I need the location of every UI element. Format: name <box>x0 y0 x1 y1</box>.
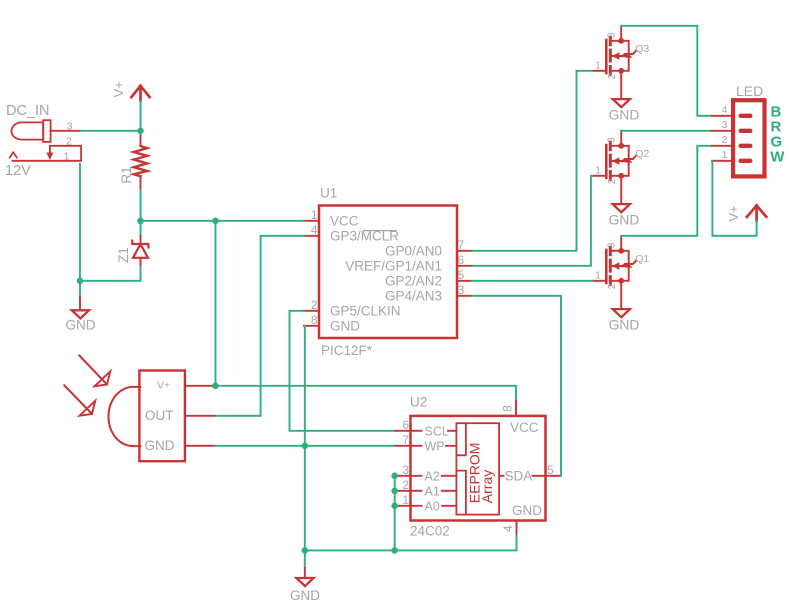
wire Q2 drain to LED pin3 <box>621 130 712 132</box>
wire A2/A1/A0 to GND rail <box>394 476 396 551</box>
pin 3 A2 of U2 <box>395 463 457 483</box>
ground GND (Q2) <box>609 204 640 227</box>
wire V+ to LED pin1 <box>712 161 757 236</box>
pin 3 of LED <box>712 119 753 133</box>
svg-text:LED: LED <box>736 83 763 99</box>
pin 3 of DC_IN <box>51 120 81 132</box>
pin V+ of IR sensor <box>185 385 215 387</box>
ground GND (Q3) <box>609 99 640 122</box>
pin 1 VCC of U1 <box>304 208 359 228</box>
pin 2 GP5/CLKIN of U1 <box>304 298 401 318</box>
svg-text:3: 3 <box>722 119 728 131</box>
svg-text:U2: U2 <box>410 395 427 410</box>
svg-text:GND: GND <box>290 588 320 603</box>
wire V+ vertical to IR sensor <box>215 221 217 386</box>
wire Q1 gate to U1 pin5 <box>472 280 592 282</box>
wire U1 pin4 to IR OUT <box>215 236 304 416</box>
light ray arrow 2 <box>64 385 95 415</box>
svg-text:6: 6 <box>402 418 409 432</box>
svg-text:Array: Array <box>479 470 495 503</box>
svg-text:A1: A1 <box>425 484 440 498</box>
svg-text:GP0/AN0: GP0/AN0 <box>385 243 442 258</box>
svg-text:PIC12F*: PIC12F* <box>321 343 373 358</box>
node GND/WP junction <box>302 443 309 450</box>
pin 4 of LED <box>712 104 753 118</box>
pin 2 of DC_IN <box>46 135 81 160</box>
pin 2 A1 of U2 <box>395 478 457 498</box>
pin 1 A0 of U2 <box>395 493 457 513</box>
power symbol V+ (near LED) <box>726 205 766 221</box>
svg-text:A0: A0 <box>425 499 440 513</box>
wire U1 pin8 GND vertical <box>304 326 306 551</box>
svg-text:GND: GND <box>66 318 96 333</box>
svg-text:3: 3 <box>67 120 73 132</box>
EEPROM array inner box <box>456 423 499 514</box>
svg-text:3: 3 <box>458 283 465 297</box>
svg-text:SDA: SDA <box>505 468 533 483</box>
svg-text:1: 1 <box>311 208 318 222</box>
svg-text:GP2/AN2: GP2/AN2 <box>385 273 442 288</box>
IR receiver sensor <box>109 371 185 462</box>
node V+ junction <box>137 128 144 135</box>
svg-text:R1: R1 <box>119 166 134 183</box>
connector LED <box>733 83 764 177</box>
svg-text:Q1: Q1 <box>635 253 649 265</box>
svg-text:GP4/AN3: GP4/AN3 <box>385 288 442 303</box>
svg-text:V+: V+ <box>157 380 170 392</box>
wire bottom GND rail <box>305 536 517 551</box>
svg-text:2: 2 <box>607 178 618 184</box>
pin 6 VREF/GP1/AN1 of U1 <box>345 253 472 273</box>
transistor Q3 <box>592 26 649 98</box>
svg-text:OUT: OUT <box>145 408 174 423</box>
svg-text:3: 3 <box>606 137 617 143</box>
svg-text:2: 2 <box>607 283 618 289</box>
wire Z1 anode to GND rail <box>80 266 141 280</box>
wire Q3 drain to LED pin4 <box>621 26 712 116</box>
svg-text:GND: GND <box>609 213 640 228</box>
node GND rail junction mid <box>391 547 398 554</box>
pin 5 GP2/AN2 of U1 <box>385 268 472 288</box>
pin 7 GP0/AN0 of U1 <box>385 238 472 258</box>
IC U1 PIC12F <box>319 185 457 358</box>
svg-text:1: 1 <box>402 493 409 507</box>
node GND junction left <box>77 278 84 285</box>
ground GND (bottom) <box>290 550 320 603</box>
wire Q2 gate to U1 pin6 <box>472 176 592 266</box>
svg-text:2: 2 <box>607 73 618 79</box>
pin 7 WP of U2 <box>396 433 457 453</box>
svg-text:8: 8 <box>501 405 515 412</box>
power symbol V+ (top left) <box>111 81 149 101</box>
svg-text:3: 3 <box>606 32 617 38</box>
node GND rail junction left <box>302 547 309 554</box>
svg-text:5: 5 <box>547 463 554 477</box>
wire U1 pin3 to U2 SDA <box>472 296 561 476</box>
svg-text:GP5/CLKIN: GP5/CLKIN <box>330 303 401 318</box>
pin 8 GND of U1 <box>304 313 360 333</box>
svg-text:V+: V+ <box>726 205 741 221</box>
wire Q3 gate to U1 pin7 <box>472 71 592 251</box>
svg-text:8: 8 <box>311 313 318 327</box>
node IR V+ junction <box>212 383 219 390</box>
node A2 junction <box>391 473 398 480</box>
svg-text:1: 1 <box>722 149 728 161</box>
svg-text:SCL: SCL <box>425 424 449 438</box>
svg-text:6: 6 <box>458 253 465 267</box>
light ray arrow 1 <box>79 356 110 387</box>
svg-text:24C02: 24C02 <box>410 524 450 539</box>
svg-text:12V: 12V <box>5 163 31 179</box>
svg-text:VCC: VCC <box>330 213 359 228</box>
svg-text:7: 7 <box>458 238 465 252</box>
wire DC_IN pin1 down <box>79 164 81 297</box>
svg-text:A2: A2 <box>425 469 440 483</box>
pin GND of IR sensor <box>185 445 215 447</box>
svg-text:1: 1 <box>595 270 601 281</box>
svg-text:2: 2 <box>722 134 728 146</box>
pin 5 SDA of U2 <box>499 463 560 483</box>
resistor R1 <box>119 131 147 191</box>
svg-text:Q3: Q3 <box>635 43 649 55</box>
wire Q1 drain to LED pin2 <box>621 146 712 236</box>
node T junction to IR V+ <box>212 218 219 225</box>
svg-text:DC_IN: DC_IN <box>6 103 50 119</box>
svg-text:VREF/GP1/AN1: VREF/GP1/AN1 <box>345 258 442 273</box>
svg-text:5: 5 <box>458 268 465 282</box>
transistor Q1 <box>592 236 649 308</box>
wire R1 bottom to node <box>140 191 142 221</box>
svg-text:Z1: Z1 <box>116 247 131 263</box>
svg-text:GND: GND <box>145 438 175 453</box>
pin 2 of LED <box>712 134 753 148</box>
svg-text:4: 4 <box>311 223 318 237</box>
svg-text:1: 1 <box>595 60 601 71</box>
pin 3 GP4/AN3 of U1 <box>385 283 472 303</box>
svg-text:W: W <box>770 149 785 166</box>
ground GND (left) <box>66 297 96 333</box>
pin 4 GP3/MCLR of U1 <box>304 223 399 243</box>
svg-text:GND: GND <box>330 318 360 333</box>
zener diode Z1 <box>116 221 148 267</box>
node A1 junction <box>391 488 398 495</box>
svg-text:4: 4 <box>722 104 728 116</box>
wire V+ rail to U2 VCC <box>216 386 517 401</box>
svg-text:2: 2 <box>311 298 318 312</box>
ground GND (Q1) <box>609 309 640 332</box>
wire U1 pin2 to U2 SCL <box>290 311 396 431</box>
svg-text:3: 3 <box>402 463 409 477</box>
svg-text:GND: GND <box>609 108 640 123</box>
svg-text:4: 4 <box>501 525 515 532</box>
svg-text:V+: V+ <box>111 81 126 97</box>
pin 6 SCL of U2 <box>396 418 457 438</box>
svg-text:GND: GND <box>512 503 542 518</box>
svg-text:VCC: VCC <box>510 420 539 435</box>
pin 4 GND of U2 <box>501 503 542 536</box>
svg-text:2: 2 <box>402 478 409 492</box>
svg-text:Q2: Q2 <box>635 148 649 160</box>
pin 8 VCC of U2 <box>501 401 539 435</box>
svg-text:1: 1 <box>595 165 601 176</box>
svg-text:1: 1 <box>64 150 70 162</box>
pin 1 of LED <box>712 149 753 163</box>
svg-text:3: 3 <box>606 242 617 248</box>
svg-text:7: 7 <box>402 433 409 447</box>
pin OUT of IR sensor <box>185 415 215 417</box>
wire node to U1 pin1 <box>141 220 305 222</box>
wire DC_IN pin3 to V+ node <box>80 101 140 131</box>
svg-text:GND: GND <box>609 318 640 333</box>
svg-text:WP: WP <box>425 439 445 453</box>
node R1/Z1/U1-VCC junction <box>137 218 144 225</box>
svg-text:2: 2 <box>66 135 72 147</box>
node A0 junction <box>391 503 398 510</box>
svg-text:U1: U1 <box>320 185 337 200</box>
pin 1 of DC_IN (switch contact) <box>5 146 81 179</box>
wire IR GND to WP junction <box>215 445 396 447</box>
transistor Q2 <box>592 131 649 203</box>
IC U2 24C02 <box>410 395 546 539</box>
connector J1 DC_IN <box>6 103 51 142</box>
